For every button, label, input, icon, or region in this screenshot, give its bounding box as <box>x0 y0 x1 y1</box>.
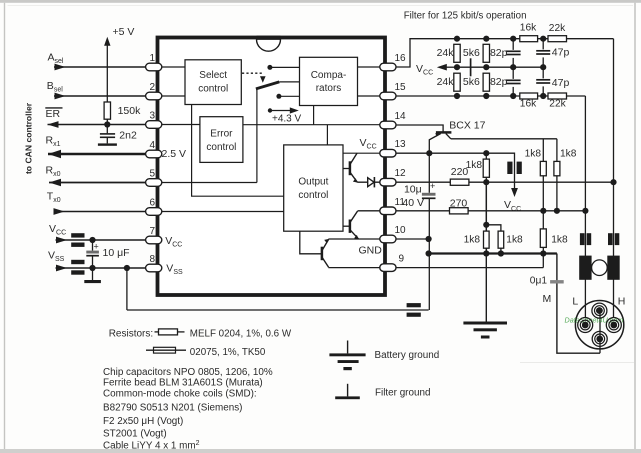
svg-text:10μ: 10μ <box>404 183 422 195</box>
svg-text:Output: Output <box>298 177 328 188</box>
svg-text:02075, 1%, TK50: 02075, 1%, TK50 <box>190 347 266 358</box>
svg-text:7: 7 <box>149 226 155 237</box>
svg-text:4: 4 <box>149 140 155 151</box>
svg-text:control: control <box>298 190 328 201</box>
svg-text:10 μF: 10 μF <box>103 247 130 259</box>
svg-text:5k6: 5k6 <box>463 47 480 59</box>
svg-text:2.5 V: 2.5 V <box>162 148 187 160</box>
svg-text:Common-mode choke coils (SMD):: Common-mode choke coils (SMD): <box>103 388 257 399</box>
svg-text:2n2: 2n2 <box>119 130 137 142</box>
svg-text:6: 6 <box>149 198 155 209</box>
svg-text:+5 V: +5 V <box>113 26 135 38</box>
svg-text:control: control <box>198 84 228 95</box>
svg-text:L: L <box>572 295 578 307</box>
svg-text:1k8: 1k8 <box>464 234 481 245</box>
svg-text:ER: ER <box>46 108 61 120</box>
svg-text:8: 8 <box>149 254 155 265</box>
svg-text:Ferrite bead BLM 31A601S (Mura: Ferrite bead BLM 31A601S (Murata) <box>103 378 263 389</box>
svg-text:14: 14 <box>395 111 407 122</box>
svg-text:1k8: 1k8 <box>525 148 542 159</box>
svg-text:Chip capacitors NPO 0805, 1206: Chip capacitors NPO 0805, 1206, 10% <box>103 367 273 378</box>
svg-text:Error: Error <box>210 129 233 140</box>
svg-text:24k: 24k <box>437 76 455 88</box>
svg-text:9: 9 <box>399 254 405 265</box>
svg-text:Resistors:: Resistors: <box>109 328 153 339</box>
svg-text:Compa-: Compa- <box>311 70 347 81</box>
svg-text:1k8: 1k8 <box>560 148 577 159</box>
svg-text:150k: 150k <box>118 105 142 117</box>
svg-text:MELF 0204, 1%, 0.6 W: MELF 0204, 1%, 0.6 W <box>190 328 292 339</box>
svg-text:1k8: 1k8 <box>551 234 568 245</box>
svg-text:82p: 82p <box>490 76 508 88</box>
svg-text:16: 16 <box>395 53 407 64</box>
svg-text:5: 5 <box>149 169 155 180</box>
svg-text:40 V: 40 V <box>402 197 424 209</box>
svg-text:16k: 16k <box>520 22 537 33</box>
svg-text:0μ1: 0μ1 <box>530 275 548 286</box>
svg-text:Filter ground: Filter ground <box>375 387 430 398</box>
svg-text:1: 1 <box>149 53 155 64</box>
svg-text:Select: Select <box>199 70 227 81</box>
svg-text:10: 10 <box>395 225 407 236</box>
svg-text:16k: 16k <box>520 99 537 110</box>
svg-text:22k: 22k <box>549 23 566 34</box>
svg-text:1k8: 1k8 <box>506 234 523 245</box>
svg-text:+: + <box>94 241 99 251</box>
svg-text:3: 3 <box>149 111 155 122</box>
svg-text:H: H <box>618 295 626 307</box>
svg-text:13: 13 <box>395 139 407 150</box>
svg-text:GND: GND <box>359 244 383 256</box>
svg-text:ST2001 (Vogt): ST2001 (Vogt) <box>103 428 167 439</box>
svg-text:15: 15 <box>395 82 407 93</box>
svg-text:BCX 17: BCX 17 <box>449 120 485 132</box>
svg-text:F2 2x50 μH (Vogt): F2 2x50 μH (Vogt) <box>103 416 183 427</box>
svg-text:Filter for 125 kbit/s operatio: Filter for 125 kbit/s operation <box>404 11 527 22</box>
svg-text:2: 2 <box>149 82 155 93</box>
svg-text:1k8: 1k8 <box>466 160 483 171</box>
svg-text:Battery ground: Battery ground <box>375 350 440 361</box>
svg-text:24k: 24k <box>437 47 455 59</box>
svg-text:270: 270 <box>450 198 468 210</box>
svg-text:M: M <box>543 293 552 305</box>
svg-text:B82790 S0513 N201 (Siemens): B82790 S0513 N201 (Siemens) <box>103 402 242 413</box>
svg-text:+4.3 V: +4.3 V <box>272 114 302 125</box>
svg-text:to CAN controller: to CAN controller <box>24 102 34 174</box>
svg-text:22k: 22k <box>549 99 566 110</box>
svg-text:47p: 47p <box>552 77 570 89</box>
svg-text:control: control <box>206 142 236 153</box>
svg-text:12: 12 <box>395 168 407 179</box>
svg-text:47p: 47p <box>552 46 570 58</box>
svg-text:Cable LiYY 4 x 1 mm2: Cable LiYY 4 x 1 mm2 <box>103 440 200 452</box>
svg-text:5k6: 5k6 <box>463 76 480 88</box>
svg-text:rators: rators <box>316 83 342 94</box>
svg-text:82p: 82p <box>490 47 508 59</box>
